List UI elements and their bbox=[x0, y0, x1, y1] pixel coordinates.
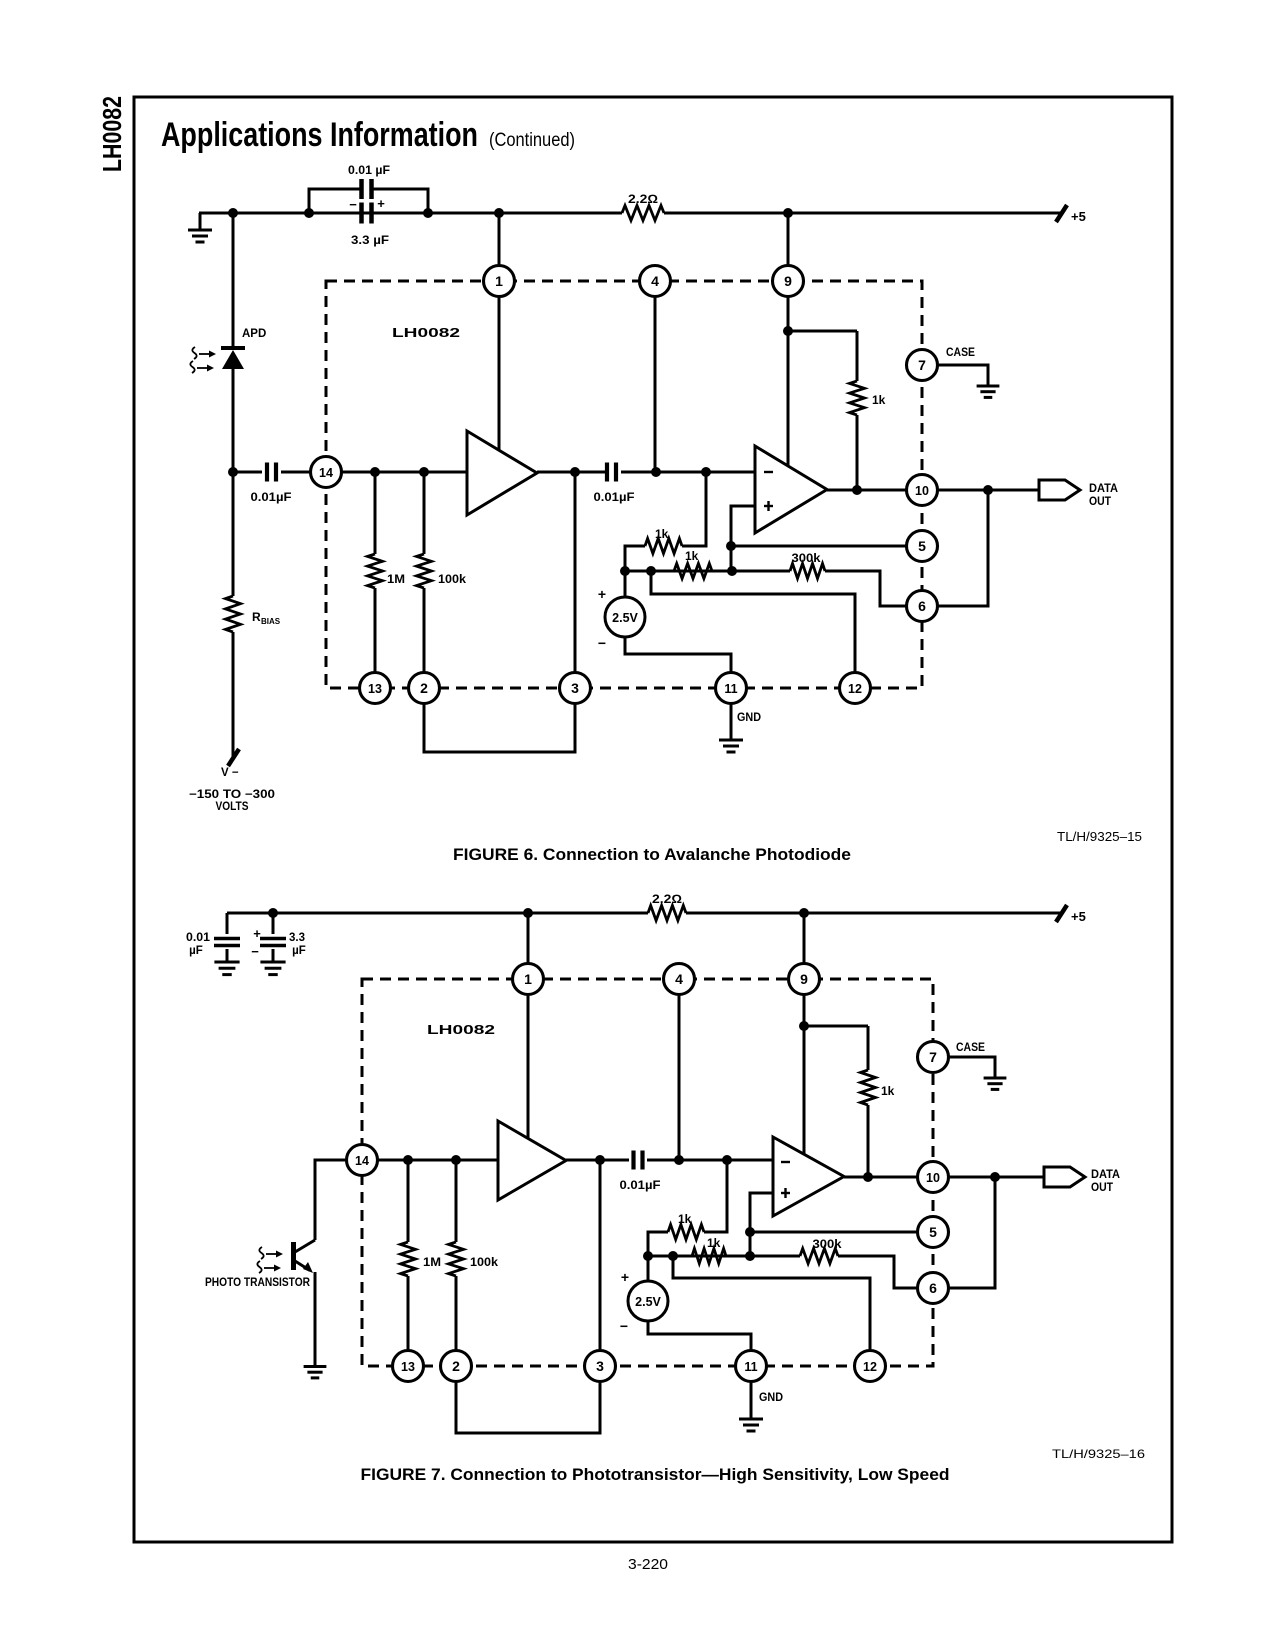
ground at supply rail left end (Fig.6) bbox=[188, 213, 212, 242]
svg-text:+5: +5 bbox=[1071, 909, 1086, 924]
credit TL/H/9325-15 bbox=[1057, 829, 1142, 844]
polarity plus (2.5V Fig.6) bbox=[598, 586, 606, 602]
svg-text:µF: µF bbox=[292, 945, 306, 957]
pin 5 (Fig.6) bbox=[907, 531, 938, 562]
resistor RBIAS (Fig.6) bbox=[226, 472, 241, 757]
label -150 TO -300 bbox=[189, 789, 275, 801]
label uF (bypass 0.01 Fig.7) bbox=[189, 945, 203, 957]
wire pin11 to ground (Fig.6) bbox=[730, 703, 733, 739]
label uF (bypass 3.3 Fig.7) bbox=[292, 945, 306, 957]
svg-text:−: − bbox=[349, 197, 357, 212]
title Applications Information bbox=[161, 116, 478, 154]
comparator plus sign (Fig.6) bbox=[764, 501, 773, 511]
svg-text:DATA: DATA bbox=[1089, 483, 1118, 495]
pin 3 (Fig.7) bbox=[585, 1351, 616, 1382]
resistor 300k (Fig.6) bbox=[732, 564, 907, 607]
wire pin2-pin3 strap (Fig.7) bbox=[456, 1381, 600, 1433]
node junction plus-node/pin5 (Fig.6) bbox=[726, 541, 736, 551]
pin 12 (Fig.7) bbox=[855, 1351, 886, 1382]
capacitor 0.01uF input coupling (Fig.6) bbox=[267, 463, 276, 482]
svg-text:−: − bbox=[620, 1318, 628, 1334]
node junction minus-node/1k feedback (Fig.7) bbox=[722, 1155, 732, 1165]
wire hysteresis net (Fig.6) bbox=[625, 570, 732, 573]
resistor 100k (Fig.7) bbox=[449, 1160, 464, 1351]
wire pin1 to rail (Fig.6) bbox=[498, 213, 501, 266]
label APD bbox=[242, 328, 266, 340]
node junction pin12 tap (Fig.6) bbox=[646, 566, 656, 576]
ground 3.3uF bypass (Fig.7) bbox=[260, 962, 285, 975]
resistor 1k pull-up (Fig.7) bbox=[861, 1026, 876, 1177]
node junction pin9/1k pull-up (Fig.6) bbox=[783, 326, 793, 336]
label +5 (Fig.6) bbox=[1071, 209, 1086, 224]
supply tap slash +5 (Fig.6) bbox=[1056, 205, 1067, 222]
svg-text:300k: 300k bbox=[813, 1237, 842, 1251]
voltage source 2.5V (Fig.6) bbox=[605, 571, 645, 637]
node junction 100k tap (Fig.6) bbox=[419, 467, 429, 477]
svg-text:FIGURE 7. Connection to Photot: FIGURE 7. Connection to Phototransistor—… bbox=[361, 1465, 950, 1484]
svg-text:0.01µF: 0.01µF bbox=[594, 490, 635, 504]
node junction pin4/signal (Fig.7) bbox=[674, 1155, 684, 1165]
wire +5 supply rail (Fig.6) bbox=[199, 212, 1062, 215]
wire 1k feedback to 2.5V node (Fig.6) bbox=[625, 546, 645, 571]
label OUT (Fig.7) bbox=[1091, 1182, 1113, 1194]
wire pin11 to ground (Fig.7) bbox=[750, 1381, 753, 1418]
node junction plus-node/300k (Fig.6) bbox=[727, 566, 737, 576]
svg-text:+: + bbox=[598, 586, 606, 602]
svg-text:PHOTO TRANSISTOR: PHOTO TRANSISTOR bbox=[205, 1277, 311, 1289]
svg-text:1k: 1k bbox=[678, 1212, 692, 1226]
svg-text:7: 7 bbox=[918, 357, 926, 373]
svg-text:0.01µF: 0.01µF bbox=[251, 490, 292, 504]
node junction rail/APD branch bbox=[228, 208, 238, 218]
svg-text:CASE: CASE bbox=[946, 347, 975, 359]
wire pin7 to case ground (Fig.6) bbox=[937, 365, 988, 385]
label 0.01uF (interstage cap Fig.6) bbox=[594, 490, 635, 504]
pin 6 (Fig.7) bbox=[918, 1273, 949, 1304]
svg-text:2.2Ω: 2.2Ω bbox=[652, 892, 682, 906]
svg-text:0.01 µF: 0.01 µF bbox=[348, 163, 390, 177]
label 300k (Fig.6) bbox=[792, 551, 821, 565]
node junction 2.5V top (Fig.7) bbox=[643, 1251, 653, 1261]
node junction output/1k pull-up (Fig.7) bbox=[863, 1172, 873, 1182]
pin 3 (Fig.6) bbox=[560, 673, 591, 704]
page border frame bbox=[134, 97, 1172, 1542]
comparator plus sign (Fig.7) bbox=[781, 1188, 790, 1198]
label 3.3 (bypass Fig.7) bbox=[289, 932, 305, 944]
svg-text:2: 2 bbox=[452, 1358, 460, 1374]
wire buffer output (Fig.6) bbox=[537, 471, 607, 474]
label 0.01uF (interstage cap Fig.7) bbox=[620, 1178, 661, 1192]
capacitor 0.01uF bypass (Fig.7) bbox=[214, 913, 240, 961]
diode APD avalanche photodiode (Fig.6) bbox=[221, 348, 245, 369]
ground case (Fig.7) bbox=[984, 1078, 1007, 1089]
comparator A2 (Fig.6) bbox=[755, 446, 827, 533]
resistor 1k feedback (Fig.7) bbox=[668, 1225, 704, 1240]
label 1k (hysteresis Fig.6) bbox=[685, 549, 699, 563]
wire APD cathode to input node bbox=[232, 369, 235, 472]
wire pin6 to data-out node (Fig.6) bbox=[937, 490, 988, 606]
label 1k (pull-up Fig.6) bbox=[872, 393, 886, 407]
pin 4 (Fig.7) bbox=[664, 964, 695, 995]
ground phototransistor emitter (Fig.7) bbox=[304, 1367, 327, 1378]
svg-text:LH0082: LH0082 bbox=[97, 96, 127, 172]
svg-text:14: 14 bbox=[319, 466, 333, 480]
label 100k (Fig.6) bbox=[438, 572, 466, 586]
svg-text:DATA: DATA bbox=[1091, 1169, 1120, 1181]
light arrow into phototransistor (upper) bbox=[259, 1247, 283, 1259]
wire 1k feedback left (Fig.7) bbox=[704, 1160, 727, 1232]
comparator minus sign (Fig.6) bbox=[764, 471, 773, 473]
wire 1k feedback to 2.5V node (Fig.7) bbox=[648, 1232, 668, 1256]
wire 1k feedback left (Fig.6) bbox=[682, 472, 706, 546]
ground case (Fig.6) bbox=[977, 386, 1000, 397]
ground 0.01uF bypass (Fig.7) bbox=[214, 962, 239, 975]
pin 9 (Fig.7) bbox=[789, 964, 820, 995]
label RBIAS bbox=[252, 610, 281, 626]
svg-text:GND: GND bbox=[737, 712, 761, 724]
supply tap slash +5 (Fig.7) bbox=[1056, 905, 1067, 922]
svg-text:300k: 300k bbox=[792, 551, 821, 565]
light arrow into APD (upper) bbox=[192, 347, 216, 359]
pin 5 (Fig.7) bbox=[918, 1217, 949, 1248]
capacitor 3.3uF bypass (Fig.6, on rail) bbox=[362, 203, 372, 224]
label 1k (pull-up Fig.7) bbox=[881, 1084, 895, 1098]
pin 11 (Fig.7) bbox=[736, 1351, 767, 1382]
label GND (Fig.7) bbox=[759, 1392, 783, 1404]
svg-text:−150 TO −300: −150 TO −300 bbox=[189, 789, 275, 801]
label DATA (Fig.6) bbox=[1089, 483, 1118, 495]
label LH0082 (package Fig.7) bbox=[427, 1023, 495, 1037]
label DATA (Fig.7) bbox=[1091, 1169, 1120, 1181]
node junction rail/pin1 bbox=[494, 208, 504, 218]
svg-text:13: 13 bbox=[368, 682, 382, 696]
wire pin 4 to signal (Fig.7) bbox=[678, 994, 681, 1160]
pin 4 (Fig.6) bbox=[640, 266, 671, 297]
wire interstage cap to comparator minus input (Fig.6) bbox=[621, 471, 755, 474]
pin 10 (Fig.7) bbox=[918, 1162, 949, 1193]
dashed package outline LH0082 (Fig.6) bbox=[326, 281, 922, 688]
node junction plus-node/pin5 (Fig.7) bbox=[745, 1227, 755, 1237]
svg-text:10: 10 bbox=[915, 484, 929, 498]
resistor 300k (Fig.7) bbox=[750, 1249, 918, 1289]
resistor 1k pull-up (Fig.6) bbox=[850, 331, 865, 490]
resistor 2.2 ohm (Fig.7 supply) bbox=[648, 906, 686, 921]
wire +5 supply rail (Fig.7) bbox=[227, 912, 1062, 915]
data out arrow flag (Fig.7) bbox=[1044, 1167, 1085, 1187]
resistor 1M (Fig.7) bbox=[401, 1160, 416, 1351]
node junction 1M tap (Fig.6) bbox=[370, 467, 380, 477]
node junction buffer output/pin3 branch (Fig.7) bbox=[595, 1155, 605, 1165]
svg-text:1k: 1k bbox=[872, 393, 886, 407]
wire pin9 to rail (Fig.7) bbox=[803, 913, 806, 964]
label 100k (Fig.7) bbox=[470, 1255, 498, 1269]
label CASE (Fig.6) bbox=[946, 347, 975, 359]
label 300k (Fig.7) bbox=[813, 1237, 842, 1251]
svg-text:5: 5 bbox=[929, 1224, 937, 1240]
node junction rail/pin9 bbox=[783, 208, 793, 218]
node junction output/1k pull-up (Fig.6) bbox=[852, 485, 862, 495]
credit TL/H/9325-16 bbox=[1052, 1447, 1145, 1461]
svg-text:6: 6 bbox=[929, 1280, 937, 1296]
voltage source 2.5V (Fig.7) bbox=[628, 1256, 668, 1321]
svg-text:7: 7 bbox=[929, 1049, 937, 1065]
pin 14 (Fig.7) bbox=[347, 1145, 378, 1176]
wire pin1 to rail (Fig.7) bbox=[527, 913, 530, 964]
wire 2.5V minus to pin 11 (Fig.6) bbox=[625, 637, 731, 673]
wire pin9 to rail (Fig.6) bbox=[787, 213, 790, 266]
svg-text:100k: 100k bbox=[470, 1255, 498, 1269]
wire pin9 into comparator (Fig.6) bbox=[787, 296, 790, 470]
svg-text:FIGURE 6. Connection to Avalan: FIGURE 6. Connection to Avalanche Photod… bbox=[453, 845, 851, 864]
label 1M (Fig.7) bbox=[423, 1255, 441, 1269]
light arrow into phototransistor (lower) bbox=[257, 1261, 281, 1273]
svg-text:9: 9 bbox=[784, 273, 792, 289]
resistor 2.2 ohm (Fig.6 supply) bbox=[622, 206, 664, 221]
comparator minus sign (Fig.7) bbox=[781, 1161, 790, 1163]
caption FIGURE 6 bbox=[453, 845, 851, 864]
label 1M (Fig.6) bbox=[387, 572, 405, 586]
svg-text:3: 3 bbox=[596, 1358, 604, 1374]
svg-text:1k: 1k bbox=[685, 549, 699, 563]
wire pin9 node to 1k pull-up (Fig.7) bbox=[804, 1025, 868, 1028]
wire buffer output to pin 3 (Fig.7) bbox=[599, 1160, 602, 1351]
pin 13 (Fig.7) bbox=[393, 1351, 424, 1382]
wire pin14 to buffer input (Fig.6) bbox=[341, 471, 467, 474]
resistor 1k hysteresis (Fig.6) bbox=[674, 564, 712, 579]
polarity minus (3.3uF Fig.6) bbox=[349, 197, 357, 212]
wire pin1 into buffer (Fig.7) bbox=[527, 994, 530, 1155]
wire pin9 into comparator (Fig.7) bbox=[803, 994, 806, 1155]
wire pin6 to data-out node (Fig.7) bbox=[948, 1177, 995, 1288]
node junction rail/bypass left bbox=[304, 208, 314, 218]
sidebar part number LH0082 (vertical) bbox=[97, 96, 127, 172]
pin 12 (Fig.6) bbox=[840, 673, 871, 704]
svg-text:+: + bbox=[621, 1269, 629, 1285]
node junction buffer output/pin3 branch (Fig.6) bbox=[570, 467, 580, 477]
wire pin10 to data out (Fig.7) bbox=[948, 1176, 1044, 1179]
label CASE (Fig.7) bbox=[956, 1042, 985, 1054]
dashed package outline LH0082 (Fig.7) bbox=[362, 979, 933, 1366]
polarity plus (2.5V Fig.7) bbox=[621, 1269, 629, 1285]
svg-text:APD: APD bbox=[242, 328, 266, 340]
op-amp buffer A1 (Fig.6) bbox=[467, 431, 537, 515]
wire pin12 branch (Fig.7) bbox=[673, 1256, 870, 1351]
svg-text:3-220: 3-220 bbox=[628, 1556, 668, 1573]
svg-text:10: 10 bbox=[926, 1171, 940, 1185]
label 2.2 ohm (Fig.6) bbox=[628, 192, 658, 206]
svg-text:GND: GND bbox=[759, 1392, 783, 1404]
resistor 1M (Fig.6) bbox=[368, 472, 383, 673]
svg-text:2: 2 bbox=[420, 680, 428, 696]
wire pin7 to case ground (Fig.7) bbox=[948, 1057, 995, 1077]
pin 11 (Fig.6) bbox=[716, 673, 747, 704]
wire pin 4 to signal (Fig.6) bbox=[654, 296, 657, 472]
label VOLTS bbox=[216, 801, 249, 813]
resistor 100k (Fig.6) bbox=[417, 472, 432, 673]
label 3.3 uF (bypass cap Fig.6) bbox=[351, 233, 389, 247]
svg-text:1M: 1M bbox=[387, 572, 405, 586]
capacitor 0.01uF bypass (Fig.6 top) bbox=[362, 179, 372, 199]
wire pin14 to buffer input (Fig.7) bbox=[377, 1159, 498, 1162]
polarity minus (2.5V Fig.7) bbox=[620, 1318, 628, 1334]
svg-text:12: 12 bbox=[863, 1360, 877, 1374]
svg-text:1k: 1k bbox=[881, 1084, 895, 1098]
label 0.01 (bypass Fig.7) bbox=[186, 932, 211, 944]
data out arrow flag (Fig.6) bbox=[1039, 480, 1080, 500]
label OUT (Fig.6) bbox=[1089, 496, 1111, 508]
node junction pin4/signal (Fig.6) bbox=[651, 467, 661, 477]
wire pin2-pin3 strap (Fig.6) bbox=[424, 703, 575, 752]
wire 2.5V minus to pin 11 (Fig.7) bbox=[648, 1321, 751, 1351]
capacitor 0.01uF interstage (Fig.7) bbox=[634, 1151, 643, 1170]
svg-text:LH0082: LH0082 bbox=[427, 1023, 495, 1037]
light arrow into APD (lower) bbox=[190, 361, 214, 373]
svg-text:(Continued): (Continued) bbox=[489, 130, 575, 151]
wire pin10 to data out (Fig.6) bbox=[937, 489, 1039, 492]
pin 2 (Fig.6) bbox=[409, 673, 440, 704]
wire comparator plus input (Fig.6) bbox=[731, 506, 755, 571]
svg-text:+: + bbox=[253, 926, 261, 941]
ground pin11 (Fig.7) bbox=[739, 1419, 763, 1431]
svg-text:3.3: 3.3 bbox=[289, 932, 305, 944]
pin 2 (Fig.7) bbox=[441, 1351, 472, 1382]
label GND (Fig.6) bbox=[737, 712, 761, 724]
svg-text:BIAS: BIAS bbox=[261, 617, 281, 626]
wire pin12 branch (Fig.6) bbox=[651, 571, 855, 673]
svg-text:1M: 1M bbox=[423, 1255, 441, 1269]
wire coupling cap to pin 14 bbox=[281, 471, 311, 474]
svg-text:CASE: CASE bbox=[956, 1042, 985, 1054]
wire hysteresis net (Fig.7) bbox=[648, 1255, 750, 1258]
svg-text:0.01: 0.01 bbox=[186, 932, 211, 944]
label 1k (feedback Fig.6) bbox=[655, 527, 669, 541]
node junction rail/3.3uF (Fig.7) bbox=[268, 908, 278, 918]
pin 13 (Fig.6) bbox=[360, 673, 391, 704]
label 0.01 uF (bypass cap Fig.6) bbox=[348, 163, 390, 177]
svg-text:V −: V − bbox=[221, 767, 239, 779]
svg-text:TL/H/9325–16: TL/H/9325–16 bbox=[1052, 1447, 1145, 1461]
svg-text:2.5V: 2.5V bbox=[612, 611, 638, 625]
svg-text:0.01µF: 0.01µF bbox=[620, 1178, 661, 1192]
svg-text:3: 3 bbox=[571, 680, 579, 696]
wire buffer output (Fig.7) bbox=[566, 1159, 629, 1162]
wire pin9 node to 1k pull-up (Fig.6) bbox=[788, 330, 857, 333]
svg-text:OUT: OUT bbox=[1091, 1182, 1113, 1194]
node junction minus-node/1k feedback (Fig.6) bbox=[701, 467, 711, 477]
svg-text:13: 13 bbox=[401, 1360, 415, 1374]
wire rail to APD anode bbox=[232, 213, 235, 349]
ground pin11 (Fig.6) bbox=[719, 740, 743, 752]
node junction rail/pin9 (Fig.7) bbox=[799, 908, 809, 918]
pin 10 (Fig.6) bbox=[907, 475, 938, 506]
svg-text:OUT: OUT bbox=[1089, 496, 1111, 508]
svg-text:1k: 1k bbox=[707, 1236, 721, 1250]
wire pin 5 line (Fig.6) bbox=[731, 545, 907, 548]
node junction plus-node/300k (Fig.7) bbox=[745, 1251, 755, 1261]
wire bypass loop upper branch (Fig.6) bbox=[309, 189, 428, 213]
comparator A2 (Fig.7) bbox=[773, 1137, 844, 1216]
node junction data-out/pin6 (Fig.6) bbox=[983, 485, 993, 495]
svg-text:2.5V: 2.5V bbox=[635, 1295, 661, 1309]
pin 1 (Fig.7) bbox=[513, 964, 544, 995]
svg-text:TL/H/9325–15: TL/H/9325–15 bbox=[1057, 829, 1142, 844]
polarity plus (3.3uF Fig.7) bbox=[253, 926, 261, 941]
wire comparator plus input (Fig.7) bbox=[750, 1193, 773, 1256]
wire input node to coupling cap bbox=[233, 471, 262, 474]
resistor 1k hysteresis (Fig.7) bbox=[692, 1249, 726, 1264]
transistor Q1 phototransistor (Fig.7) bbox=[294, 1240, 316, 1366]
node junction 1M tap (Fig.7) bbox=[403, 1155, 413, 1165]
svg-text:Applications Information: Applications Information bbox=[161, 116, 478, 154]
capacitor 0.01uF interstage (Fig.6) bbox=[607, 463, 616, 482]
pin 7 (Fig.7) bbox=[918, 1042, 949, 1073]
svg-text:14: 14 bbox=[355, 1154, 369, 1168]
label +5 (Fig.7) bbox=[1071, 909, 1086, 924]
svg-text:12: 12 bbox=[848, 682, 862, 696]
svg-text:3.3 µF: 3.3 µF bbox=[351, 233, 389, 247]
svg-text:4: 4 bbox=[675, 971, 683, 987]
label 1k (hysteresis Fig.7) bbox=[707, 1236, 721, 1250]
label PHOTO TRANSISTOR bbox=[205, 1277, 311, 1289]
svg-text:4: 4 bbox=[651, 273, 659, 289]
V- supply tap slash (Fig.6) bbox=[228, 749, 239, 766]
node junction rail/bypass right bbox=[423, 208, 433, 218]
wire interstage cap to comparator minus input (Fig.7) bbox=[647, 1159, 773, 1162]
wire comparator output to pin 10 (Fig.7) bbox=[844, 1176, 918, 1179]
label 1k (feedback Fig.7) bbox=[678, 1212, 692, 1226]
resistor 1k feedback (Fig.6) bbox=[645, 539, 682, 554]
wire buffer output to pin 3 (Fig.6) bbox=[574, 472, 577, 673]
wire pin14 to phototransistor collector (Fig.7) bbox=[315, 1160, 347, 1240]
node junction rail/pin1 (Fig.7) bbox=[523, 908, 533, 918]
polarity minus (3.3uF Fig.7) bbox=[251, 944, 259, 959]
svg-text:+: + bbox=[377, 196, 385, 211]
label LH0082 (package Fig.6) bbox=[392, 326, 460, 340]
svg-text:1: 1 bbox=[495, 273, 503, 289]
pin 6 (Fig.6) bbox=[907, 591, 938, 622]
svg-text:+5: +5 bbox=[1071, 209, 1086, 224]
wire comparator output to pin 10 (Fig.6) bbox=[827, 489, 907, 492]
polarity minus (2.5V Fig.6) bbox=[598, 635, 606, 651]
page number 3-220 bbox=[628, 1556, 668, 1573]
label 2.2 ohm (Fig.7) bbox=[652, 892, 682, 906]
label V minus bbox=[221, 767, 239, 779]
svg-text:LH0082: LH0082 bbox=[392, 326, 460, 340]
wire pin1 into buffer (Fig.6) bbox=[498, 296, 501, 465]
svg-text:R: R bbox=[252, 610, 261, 624]
node junction pin12 tap (Fig.7) bbox=[668, 1251, 678, 1261]
svg-text:1: 1 bbox=[524, 971, 532, 987]
svg-text:11: 11 bbox=[724, 682, 737, 696]
node junction APD/coupling cap bbox=[228, 467, 238, 477]
svg-text:100k: 100k bbox=[438, 572, 466, 586]
title (Continued) bbox=[489, 130, 575, 151]
caption FIGURE 7 bbox=[361, 1465, 950, 1484]
svg-text:1k: 1k bbox=[655, 527, 669, 541]
node junction 100k tap (Fig.7) bbox=[451, 1155, 461, 1165]
svg-text:µF: µF bbox=[189, 945, 203, 957]
polarity plus (3.3uF Fig.6) bbox=[377, 196, 385, 211]
op-amp buffer A1 (Fig.7) bbox=[498, 1121, 566, 1200]
svg-text:5: 5 bbox=[918, 538, 926, 554]
svg-text:−: − bbox=[251, 944, 259, 959]
pin 9 (Fig.6) bbox=[773, 266, 804, 297]
capacitor 3.3uF bypass (Fig.7) bbox=[260, 913, 286, 961]
pin 7 (Fig.6) bbox=[907, 350, 938, 381]
node junction pin9/1k pull-up (Fig.7) bbox=[799, 1021, 809, 1031]
svg-text:11: 11 bbox=[744, 1360, 757, 1374]
pin 14 (Fig.6) bbox=[311, 457, 342, 488]
